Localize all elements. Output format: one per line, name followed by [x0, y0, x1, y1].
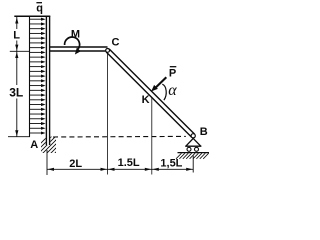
left dimension arrow down (bottom tick) [15, 130, 18, 136]
svg-text:A: A [30, 139, 38, 151]
svg-text:1,5L: 1,5L [160, 157, 182, 169]
bottom dimension line 1.5L right [152, 168, 193, 170]
tick line below C [107, 53, 109, 175]
pin joint B [191, 134, 195, 138]
force P line [156, 77, 166, 87]
horizontal beam to C bottom line [50, 50, 108, 52]
svg-text:P: P [169, 67, 176, 79]
svg-text:K: K [142, 94, 150, 106]
vertical member right line [49, 16, 51, 145]
svg-text:L: L [13, 30, 20, 42]
svg-text:3L: 3L [9, 86, 23, 100]
mid tick L/3L [10, 50, 30, 52]
vertical member left line [45, 16, 47, 145]
dim arrows at C tick [101, 168, 108, 171]
roller right [195, 147, 199, 151]
angle alpha arc [162, 84, 166, 100]
inclined member C-B lower line [106, 52, 192, 137]
roller left [187, 147, 191, 151]
horizontal beam to C top line [50, 46, 108, 48]
svg-text:M: M [71, 29, 80, 41]
ground hatching at B [176, 153, 209, 159]
bottom dimension line 1.5L [108, 168, 152, 170]
vertical member A-top (white core cover) [46, 16, 51, 145]
left dimension arrow up (top tick) [15, 18, 18, 24]
tick line below B [192, 156, 194, 173]
svg-text:1.5L: 1.5L [118, 157, 140, 169]
roller support B triangle [185, 138, 201, 146]
tick line below K [151, 97, 153, 175]
moment M arc [65, 37, 80, 49]
svg-text:B: B [200, 126, 208, 138]
left dimension arrow up (below mid tick) [15, 52, 18, 58]
distributed load tail line [29, 17, 31, 137]
member top cap [14, 15, 50, 17]
distributed load arrows [30, 18, 46, 135]
moment M arrowhead [75, 48, 81, 55]
svg-text:α: α [168, 82, 177, 99]
force P arrowhead [151, 85, 158, 92]
dashed reference line A-B [53, 135, 186, 138]
svg-text:C: C [112, 37, 120, 49]
tick line below A [46, 150, 48, 175]
dim arrows at K tick [145, 168, 152, 171]
pin joint C [106, 49, 110, 53]
svg-text:2L: 2L [69, 158, 82, 170]
inclined member C-B upper line [109, 49, 195, 134]
bottom dimension line 2L [47, 168, 108, 170]
left dimension line segments [16, 17, 18, 29]
dim arrow left at A [48, 168, 55, 171]
ground line at B [178, 152, 210, 154]
left dimension arrow down (mid tick) [15, 45, 18, 51]
support A hatched block [30, 136, 72, 154]
dim arrow right at B [186, 168, 193, 171]
bottom tick 3L [8, 136, 30, 138]
svg-text:q: q [36, 3, 43, 15]
